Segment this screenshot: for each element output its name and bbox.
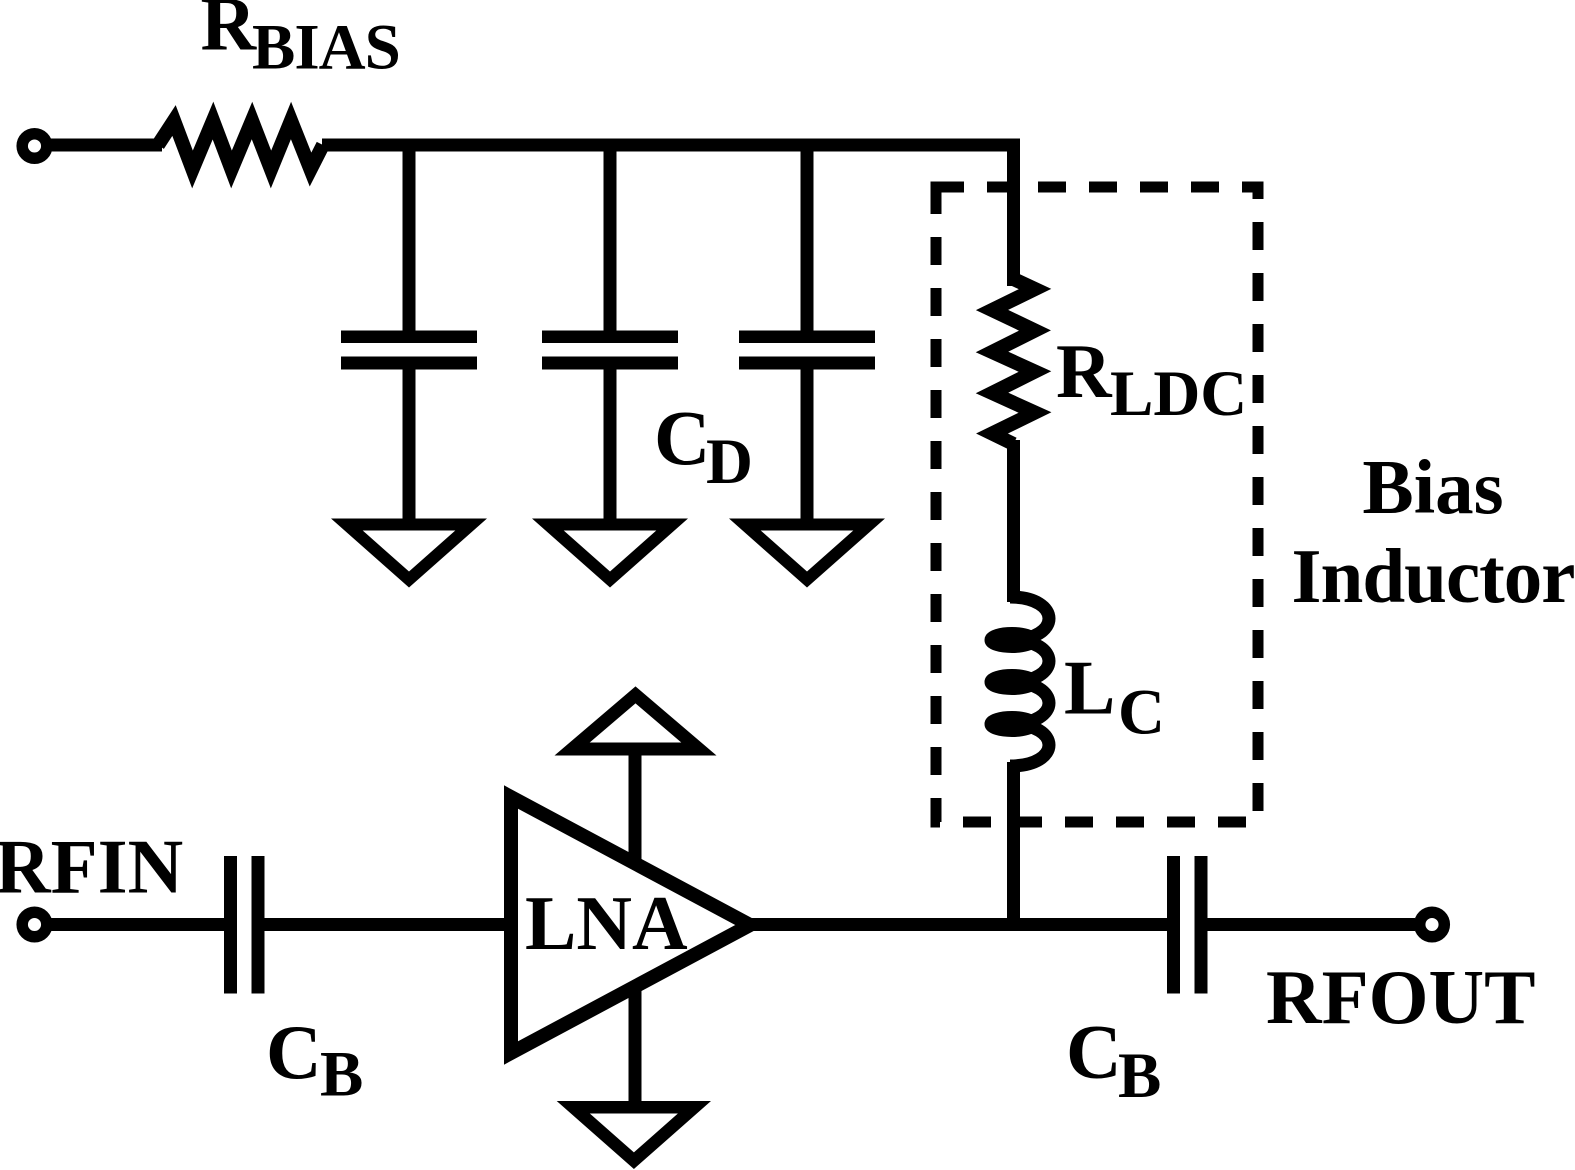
capacitor C_B input plates [224, 856, 237, 994]
svg-text:C: C [1118, 677, 1165, 749]
capacitor C_D 3 plates [739, 331, 875, 344]
ground 1 [331, 519, 487, 588]
ground arrow LNA [557, 1101, 711, 1169]
capacitor C_D 1 plates [341, 331, 477, 344]
svg-text:RFOUT: RFOUT [1266, 954, 1536, 1040]
svg-text:C: C [266, 1009, 322, 1095]
ground 3 [729, 519, 885, 588]
terminal RFIN [22, 912, 47, 937]
svg-text:R: R [1056, 328, 1113, 414]
wire LNA to output node and C_B output [750, 918, 1168, 931]
ground arrow stem [629, 988, 642, 1108]
svg-text:Inductor: Inductor [1292, 533, 1575, 619]
capacitor C_D 2 plates [542, 331, 678, 344]
svg-text:R: R [201, 0, 258, 67]
svg-text:C: C [1066, 1009, 1122, 1095]
wire top bus drop to R_LDC [1007, 139, 1020, 286]
wire RFIN to C_B input [50, 918, 226, 931]
resistor R_LDC [992, 279, 1035, 444]
VDD arrow [555, 686, 717, 755]
ground 2 [532, 519, 688, 588]
wire bias input to R_BIAS [50, 139, 162, 152]
op-amp LNA triangle [511, 797, 750, 1053]
svg-text:LDC: LDC [1110, 358, 1247, 430]
capacitor C_B output plates [1167, 856, 1180, 994]
svg-text:BIAS: BIAS [252, 12, 400, 84]
capacitor C_D 1 stem lower [403, 369, 416, 521]
capacitor C_D 2 stem lower [604, 369, 617, 521]
wire C_B output to RFOUT [1207, 918, 1415, 931]
wire C_B input to LNA [264, 918, 512, 931]
capacitor C_D 3 stem lower [801, 369, 814, 521]
svg-text:B: B [1118, 1040, 1161, 1112]
svg-text:Bias: Bias [1362, 444, 1503, 530]
capacitor C_D 1 stem upper [403, 140, 416, 331]
svg-text:D: D [706, 426, 753, 498]
wire L_C to output node [1007, 762, 1020, 931]
capacitor C_D 2 stem upper [604, 140, 617, 331]
wire top bus [322, 139, 1020, 152]
svg-text:RFIN: RFIN [0, 824, 183, 910]
terminal RFOUT [1420, 912, 1445, 937]
terminal bias input [22, 134, 47, 159]
svg-text:LNA: LNA [525, 880, 688, 966]
VDD arrow stem [629, 744, 642, 864]
capacitor C_D 3 stem upper [801, 140, 814, 331]
svg-text:B: B [320, 1039, 363, 1111]
svg-text:L: L [1064, 645, 1115, 731]
resistor R_BIAS [158, 121, 323, 170]
inductor L_C [991, 597, 1049, 766]
svg-text:C: C [654, 394, 710, 481]
dashed box bias inductor [936, 187, 1258, 822]
wire R_LDC to L_C [1007, 440, 1020, 602]
